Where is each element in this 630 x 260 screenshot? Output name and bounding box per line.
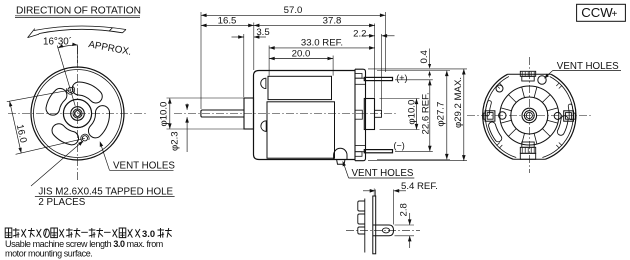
svg-text:+: + xyxy=(612,9,618,20)
svg-text:20.0: 20.0 xyxy=(292,48,311,59)
svg-text:16.5: 16.5 xyxy=(218,15,237,26)
svg-text:22.6 REF.: 22.6 REF. xyxy=(421,92,432,134)
svg-text:3.0: 3.0 xyxy=(142,228,155,239)
svg-text:VENT HOLES: VENT HOLES xyxy=(113,160,175,171)
svg-text:φ10.0: φ10.0 xyxy=(158,102,169,127)
svg-text:CCW: CCW xyxy=(581,5,613,20)
svg-text:φ10.0: φ10.0 xyxy=(407,100,418,125)
svg-text:(+): (+) xyxy=(396,73,407,83)
svg-text:3.5: 3.5 xyxy=(256,27,269,38)
svg-text:φ27.7: φ27.7 xyxy=(436,102,447,127)
svg-text:φ2.3: φ2.3 xyxy=(169,131,180,151)
svg-text:2.8: 2.8 xyxy=(399,203,410,216)
svg-text:motor mounting surface.: motor mounting surface. xyxy=(5,248,92,258)
svg-text:(−): (−) xyxy=(394,141,405,151)
svg-text:37.8: 37.8 xyxy=(323,15,342,26)
svg-text:φ29.2 MAX.: φ29.2 MAX. xyxy=(453,77,464,128)
svg-text:16°30´: 16°30´ xyxy=(43,37,72,48)
svg-text:JIS M2.6X0.45 TAPPED HOLE: JIS M2.6X0.45 TAPPED HOLE xyxy=(38,187,173,198)
svg-text:57.0: 57.0 xyxy=(284,5,303,16)
svg-text:DIRECTION OF ROTATION: DIRECTION OF ROTATION xyxy=(16,6,141,17)
svg-text:Usable machine screw length 3.: Usable machine screw length 3.0 max. fro… xyxy=(5,239,163,249)
svg-text:2 PLACES: 2 PLACES xyxy=(38,197,85,208)
svg-text:2.2: 2.2 xyxy=(353,29,366,40)
svg-text:33.0 REF.: 33.0 REF. xyxy=(301,38,343,49)
svg-text:VENT HOLES: VENT HOLES xyxy=(352,168,414,179)
svg-text:5.4 REF.: 5.4 REF. xyxy=(401,181,438,192)
svg-text:0.4: 0.4 xyxy=(419,49,430,63)
